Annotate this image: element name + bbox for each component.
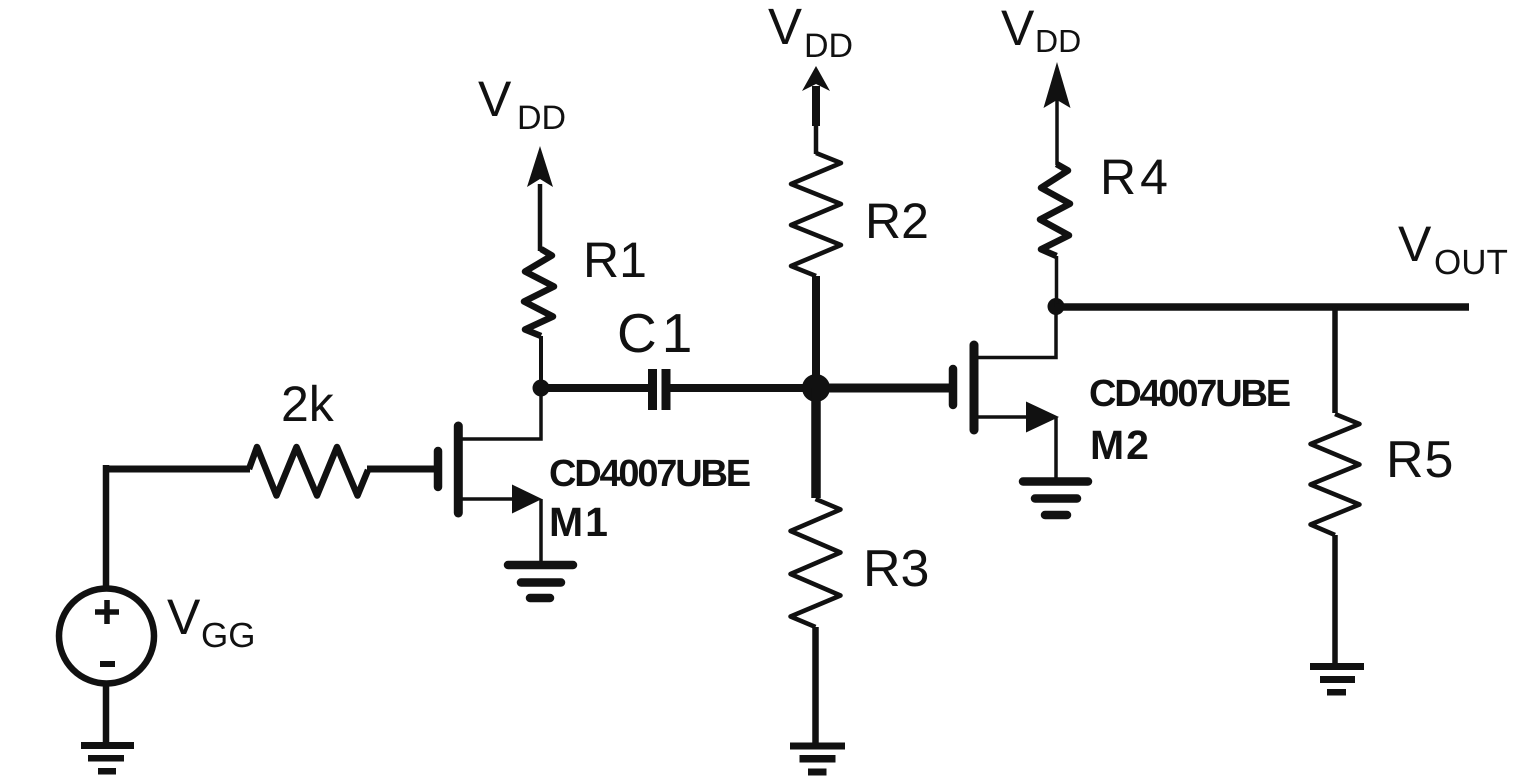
wire VGG top to bend (103, 465, 110, 590)
label M1 (549, 499, 610, 545)
label 2k (281, 376, 335, 432)
wire center node down to R3 (811, 388, 821, 498)
label VOUT (1398, 216, 1508, 282)
wire R5 to ground (1332, 535, 1338, 663)
svg-text:R2: R2 (865, 193, 929, 249)
svg-text:DD: DD (1035, 23, 1081, 59)
svg-text:R5: R5 (1386, 431, 1454, 489)
M2 source stub (978, 415, 1031, 419)
ground below R5 (1310, 663, 1364, 696)
label R1 (583, 232, 647, 288)
label C1 (617, 302, 697, 364)
resistor R1 (524, 249, 554, 336)
svg-text:M1: M1 (549, 499, 610, 545)
resistor R3 (791, 499, 841, 627)
svg-text:C1: C1 (617, 302, 697, 364)
label VDD (above R1) (478, 71, 566, 137)
resistor R2 (791, 153, 841, 276)
svg-text:R3: R3 (863, 540, 929, 598)
capacitor C1 (653, 369, 667, 410)
svg-text:GG: GG (201, 616, 255, 655)
wire center node to M2 gate (816, 384, 949, 393)
wire VOUT bus down to R5 (1332, 307, 1338, 413)
svg-text:V: V (478, 71, 512, 127)
M1 source wire down (539, 499, 543, 565)
label VDD (above R4) (1001, 0, 1081, 59)
wire C1 to center node (671, 384, 821, 392)
svg-text:V: V (1001, 0, 1035, 56)
label R5 (1386, 431, 1454, 489)
label R2 (865, 193, 929, 249)
M2 source arrow (1026, 402, 1059, 433)
wire bend to 2k resistor (103, 466, 250, 473)
wire R4 bottom to node (1055, 256, 1059, 307)
M2 drain stub (978, 307, 1056, 358)
VGG minus sign (100, 661, 115, 667)
resistor R4 (1040, 164, 1070, 256)
wire 2k to M1 gate (367, 466, 434, 473)
svg-text:V: V (167, 589, 201, 645)
label VGG (167, 589, 255, 655)
svg-text:R4: R4 (1100, 149, 1172, 205)
svg-text:CD4007UBE: CD4007UBE (549, 453, 750, 495)
svg-text:OUT: OUT (1434, 243, 1508, 282)
resistor 2k (249, 447, 368, 496)
VDD arrow above R2 (812, 86, 820, 126)
wire VOUT bus (1056, 303, 1469, 311)
M1 drain stub (462, 388, 541, 439)
wire VGG bottom to ground (103, 683, 110, 744)
M1 source arrow (512, 485, 542, 514)
M2 source wire down (1054, 417, 1058, 478)
ground below VGG (81, 742, 134, 775)
ground below M1 (508, 565, 573, 598)
resistor R5 (1311, 414, 1360, 535)
svg-text:2k: 2k (281, 376, 335, 432)
label M2 (1090, 422, 1151, 468)
VGG plus sign (95, 600, 119, 624)
wire R1 bottom to drain node (539, 336, 543, 388)
svg-text:M2: M2 (1090, 422, 1151, 468)
transistor M2 channel bar (970, 345, 979, 430)
node M2 drain / VOUT (1048, 298, 1065, 315)
svg-text:R1: R1 (583, 232, 647, 288)
wire M1 drain node to C1 (541, 384, 648, 392)
ground below M2 (1023, 482, 1088, 516)
transistor M1 gate bar (434, 451, 443, 487)
wire R3 to ground (812, 627, 819, 743)
voltage source VGG (59, 589, 154, 684)
VDD arrow above R4 (1055, 100, 1059, 165)
ground below R3 (790, 743, 845, 776)
node M1 drain (533, 380, 550, 397)
node center junction (802, 374, 830, 402)
VDD arrow above R1 (538, 184, 543, 251)
label R4 (1100, 149, 1172, 205)
transistor M1 channel bar (454, 426, 463, 513)
transistor M2 gate bar (949, 369, 958, 405)
svg-text:DD: DD (517, 99, 566, 137)
svg-text:V: V (768, 0, 802, 55)
label VDD (above R2) (768, 0, 853, 65)
wire center node up to R2 (812, 276, 820, 388)
M1 source stub (462, 497, 515, 501)
label R3 (863, 540, 929, 598)
label CD4007UBE M2 (1089, 373, 1290, 415)
svg-text:V: V (1398, 216, 1432, 272)
label CD4007UBE M1 (549, 453, 750, 495)
svg-text:CD4007UBE: CD4007UBE (1089, 373, 1290, 415)
svg-text:DD: DD (804, 27, 853, 65)
